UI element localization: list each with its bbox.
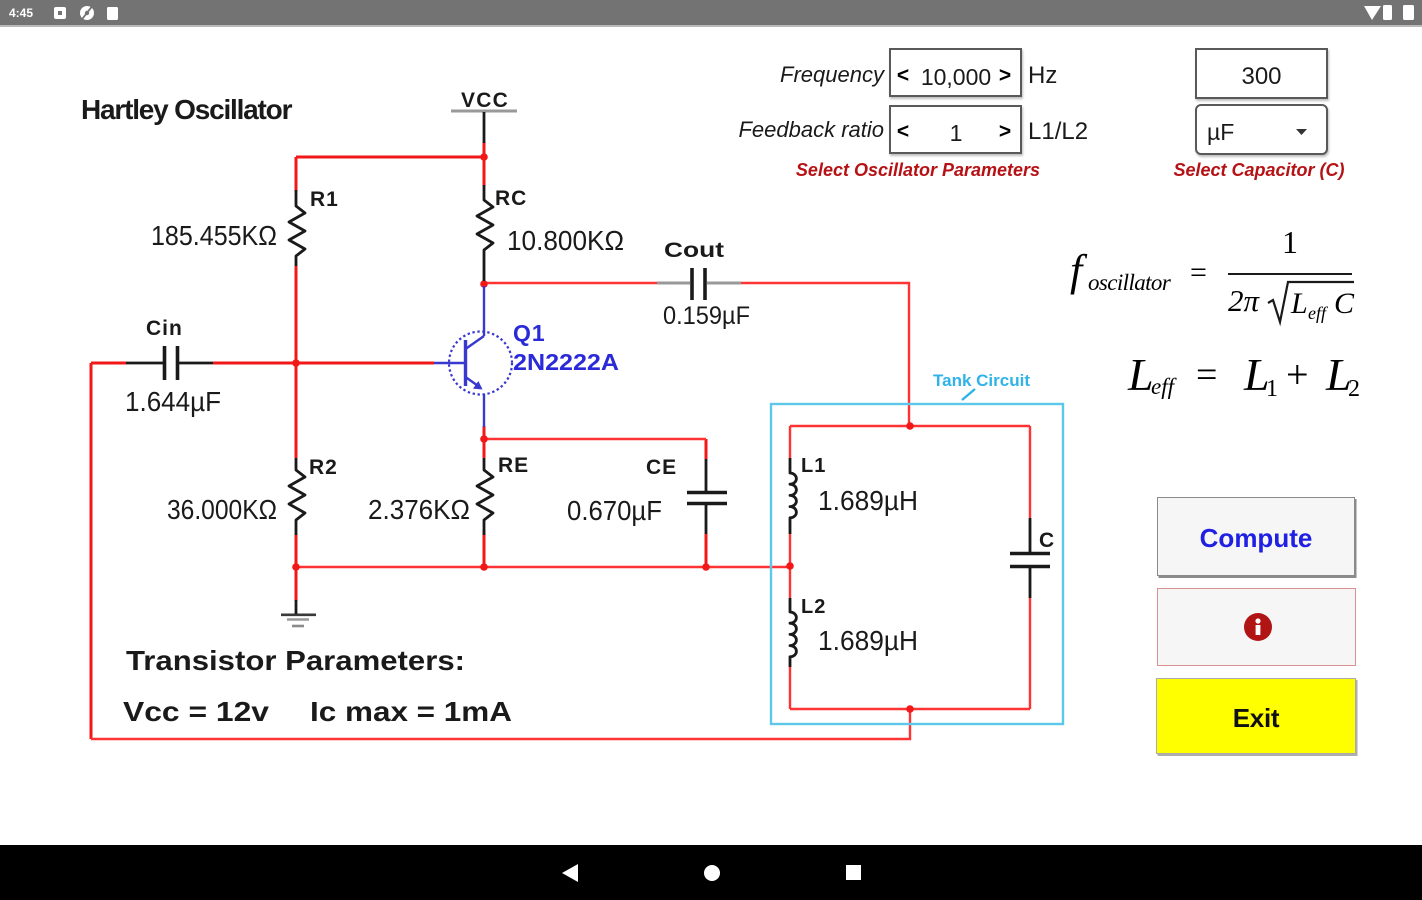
svg-text:L2: L2 (801, 596, 826, 618)
svg-text:2N2222A: 2N2222A (513, 349, 619, 375)
svg-text:RE: RE (498, 454, 529, 477)
svg-text:RC: RC (495, 187, 527, 210)
svg-text:Vcc = 12v: Vcc = 12v (123, 696, 269, 727)
svg-text:Ic max = 1mA: Ic max = 1mA (310, 696, 512, 727)
svg-text:VCC: VCC (461, 89, 509, 112)
svg-text:0.670µF: 0.670µF (567, 495, 662, 526)
svg-text:Transistor Parameters:: Transistor Parameters: (126, 645, 465, 676)
svg-text:1.644µF: 1.644µF (125, 386, 221, 417)
svg-text:1.689µH: 1.689µH (818, 625, 918, 656)
svg-text:185.455KΩ: 185.455KΩ (151, 220, 277, 251)
svg-text:L1: L1 (801, 455, 826, 477)
svg-text:2.376KΩ: 2.376KΩ (368, 494, 470, 525)
svg-text:Cout: Cout (664, 239, 724, 262)
svg-text:R2: R2 (309, 456, 338, 479)
svg-text:10.800KΩ: 10.800KΩ (507, 225, 624, 256)
svg-text:Tank Circuit: Tank Circuit (933, 371, 1030, 390)
svg-text:Q1: Q1 (513, 320, 546, 346)
svg-text:1.689µH: 1.689µH (818, 485, 918, 516)
svg-text:CE: CE (646, 456, 677, 479)
svg-text:0.159µF: 0.159µF (663, 302, 750, 330)
svg-text:R1: R1 (310, 188, 339, 211)
svg-text:Cin: Cin (146, 317, 183, 340)
svg-text:36.000KΩ: 36.000KΩ (167, 494, 277, 525)
svg-text:C: C (1039, 529, 1055, 552)
